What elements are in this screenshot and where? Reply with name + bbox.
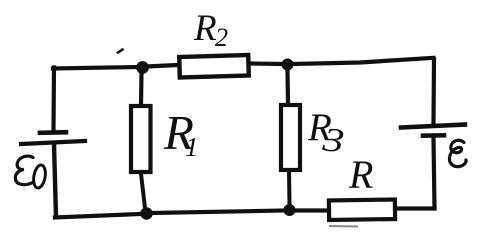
resistor R3 body xyxy=(281,105,300,170)
battery E0 long plate (bottom) xyxy=(21,141,85,144)
wire left vertical lower (battery E0 to bottom-left corner) xyxy=(54,144,56,217)
battery E0 short plate (top) xyxy=(40,130,66,135)
resistor R1 body xyxy=(131,106,151,172)
wire right vertical lower (corner up to battery E) xyxy=(434,138,435,208)
wire bottom middle (node D to node C) xyxy=(152,211,284,214)
wire node B down to resistor R3 xyxy=(285,70,290,103)
svg-text:R: R xyxy=(193,8,217,49)
node A (junction dot top-left) xyxy=(136,61,149,74)
node B (junction dot top-right) xyxy=(282,59,294,71)
wire top-right horizontal (node B to right corner) xyxy=(293,58,434,64)
svg-text:2: 2 xyxy=(215,23,228,52)
wire left vertical upper (corner to battery E0) xyxy=(51,68,56,131)
wire node C to resistor R left lead xyxy=(295,208,328,212)
node C (junction dot bottom-right) xyxy=(284,204,296,216)
battery E short plate (bottom) xyxy=(423,133,444,138)
wire resistor R1 down to node D xyxy=(141,174,145,208)
wire resistor R3 down to node C xyxy=(287,171,292,205)
wire node A to resistor R2 left lead xyxy=(146,65,178,67)
label R3 subscript 3 xyxy=(320,121,346,161)
smudge under resistor R xyxy=(330,225,357,228)
label E0 subscript 0 xyxy=(32,164,47,189)
label E (emf script E, right) xyxy=(449,140,466,166)
wire right vertical upper (battery E to top-right corner) xyxy=(431,60,436,126)
wire resistor R2 right lead to node B xyxy=(250,61,282,66)
resistor R body xyxy=(329,200,395,220)
wire resistor R right lead to bottom-right corner xyxy=(396,206,435,210)
svg-text:3: 3 xyxy=(320,121,346,161)
wire bottom-left horizontal (corner to node D) xyxy=(55,214,140,218)
label E0 (emf script E, left) xyxy=(15,156,33,185)
node D (junction dot bottom-left) xyxy=(140,207,152,219)
svg-text:1: 1 xyxy=(185,132,199,162)
battery E long plate (top) xyxy=(401,125,465,128)
stray tick mark above top wire xyxy=(118,50,123,53)
wire top-left horizontal (left corner to node A) xyxy=(53,67,138,69)
svg-text:R: R xyxy=(348,152,373,197)
resistor R2 body xyxy=(179,55,249,77)
wire node A down to resistor R1 xyxy=(139,73,144,104)
